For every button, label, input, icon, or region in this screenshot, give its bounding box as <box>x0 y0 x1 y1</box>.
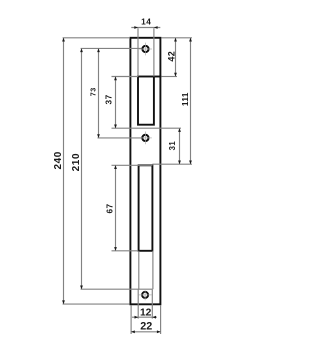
extension line slot S2 top (for dims 67/31/111) <box>112 164 153 166</box>
screw hole H1 (top) <box>139 43 152 56</box>
extension line latch centre (for dims 37/31) <box>112 127 182 129</box>
svg-text:240: 240 <box>53 151 64 170</box>
dimension 111 line <box>190 38 192 164</box>
extension line plate top right (for dims 42/111) <box>162 37 193 39</box>
svg-text:22: 22 <box>140 320 152 332</box>
plate outline <box>130 38 160 305</box>
svg-text:67: 67 <box>106 203 115 213</box>
svg-text:42: 42 <box>167 51 177 62</box>
dimension 210 line <box>81 48 83 289</box>
extension line slot S1 top right (for dim 42) <box>161 76 177 78</box>
slot S2 recess lower right edge <box>152 251 154 289</box>
dimension 14 line with outside arrows <box>131 27 160 29</box>
svg-text:31: 31 <box>168 141 177 151</box>
dimension 22 extension lines <box>130 305 132 334</box>
svg-text:12: 12 <box>140 308 152 319</box>
slot S2 recess lower left edge <box>138 251 140 289</box>
screw hole H2 (middle) <box>139 132 152 145</box>
slot S1 (latch cutout) <box>138 77 154 125</box>
dimension 12 extension lines <box>137 289 139 318</box>
extension line plate bottom (for dim 240) <box>63 303 130 305</box>
dimension 67 line <box>115 165 117 251</box>
dimension 42 line <box>175 38 177 77</box>
dimension 14 extension lines <box>137 28 139 76</box>
svg-text:73: 73 <box>89 87 98 96</box>
dimension 240 line <box>63 38 65 304</box>
extension line mid hole centre (for dim 73) <box>98 137 142 139</box>
extension line slot S1 top left (for dim 37) <box>112 76 139 78</box>
screw hole H3 (bottom) <box>139 290 152 300</box>
extension line top hole centre (for dims 210/73) <box>81 47 142 49</box>
dimension 73 line <box>98 48 100 137</box>
slot S2 (deadbolt cutout, thick) <box>139 165 153 251</box>
svg-text:37: 37 <box>105 94 114 104</box>
svg-text:111: 111 <box>180 92 190 106</box>
svg-text:210: 210 <box>71 153 82 172</box>
svg-text:14: 14 <box>141 17 151 27</box>
extension line plate top left (for dim 240) <box>63 37 130 39</box>
slot S1 top edge extension to plate right edge <box>154 76 161 78</box>
dimension 37 line <box>115 77 117 129</box>
dimension 22 line with inside arrows <box>131 331 161 333</box>
dimension 12 line with outside arrows <box>132 316 157 318</box>
extension line slot S2 bottom / bottom hole (for dim 210) <box>81 288 153 290</box>
extension line slot S2 top outer (for dims 31/111) <box>152 163 192 165</box>
extension line S2 divider (for dim 67) <box>112 250 139 252</box>
dimension 31 line <box>179 128 181 164</box>
